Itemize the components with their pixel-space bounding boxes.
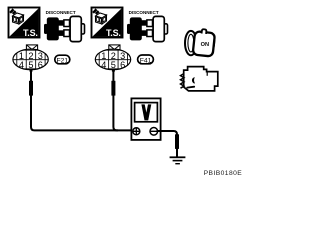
connector F21 pin grid: [13, 45, 49, 72]
connector label F41: [138, 55, 154, 65]
insulation sleeve on wire 2: [111, 81, 115, 96]
svg-text:PBIB0180E: PBIB0180E: [204, 170, 243, 177]
V letter: [141, 104, 151, 120]
DISCONNECT icon (right): [127, 10, 168, 42]
voltmeter U1: [131, 98, 160, 139]
DISCONNECT icon (left): [44, 10, 85, 42]
connector F41 pin grid: [95, 45, 131, 72]
connector label F21: [55, 55, 70, 64]
T.S. tester icon (left): [9, 8, 40, 39]
wire from F41 pin 5: [113, 70, 118, 130]
svg-text:ON: ON: [201, 42, 209, 48]
voltmeter display window: [135, 103, 158, 122]
negative terminal: [150, 128, 158, 136]
svg-text:F41: F41: [140, 58, 152, 65]
T.S. tester icon (right): [92, 8, 123, 39]
engine icon: [181, 67, 218, 91]
ground symbol: [170, 156, 186, 164]
svg-text:F21: F21: [56, 58, 68, 65]
wire from F21 pin 5 to voltmeter: [31, 70, 133, 130]
positive terminal: [133, 128, 140, 135]
voltmeter case: [131, 98, 160, 139]
ignition key ON icon: [185, 28, 216, 56]
wire from voltmeter negative terminal to ground: [157, 131, 178, 157]
insulation sleeve on wire 1: [29, 81, 33, 96]
insulation sleeve on ground wire: [175, 134, 179, 149]
